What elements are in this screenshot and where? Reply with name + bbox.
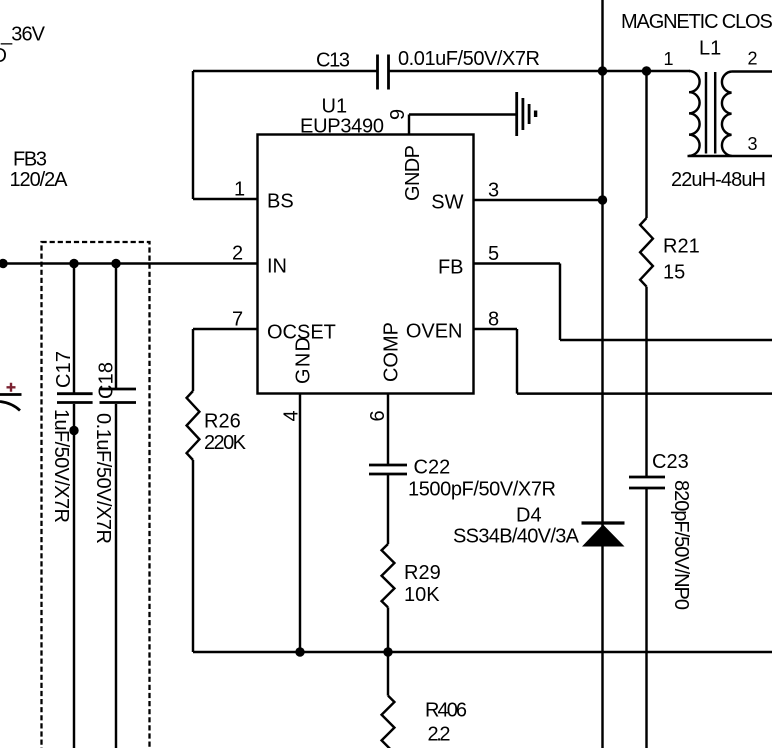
polarized capacitor (cut off at left edge) plus sign [7,383,16,392]
capacitor C13 plates [378,55,389,90]
svg-text:OVEN: OVEN [406,321,463,343]
inductor L1 right winding [722,72,732,156]
svg-text:7: 7 [232,308,243,330]
svg-text:C17: C17 [53,351,75,388]
svg-text:_36V: _36V [0,24,46,46]
polarized capacitor curved plate [0,402,20,411]
dashed box around C17 C18 [42,242,150,748]
resistor R26 [187,391,200,460]
wire L1 pin 2 [732,70,772,72]
capacitor C18 plates [100,389,137,403]
svg-text:R406: R406 [425,700,467,722]
svg-text:D: D [0,45,7,67]
wire BS loop vertical x=193 [192,71,194,199]
svg-text:3: 3 [748,134,758,154]
svg-text:L1: L1 [699,38,721,60]
wire bus to R406 [387,652,389,696]
svg-text:R29: R29 [404,562,441,584]
resistor R406 [382,696,395,748]
svg-text:D4: D4 [516,505,542,527]
wire BS horizontal to pin 1 [193,198,258,200]
svg-text:C23: C23 [652,451,689,473]
wire OCSET pin 7 [193,328,258,330]
wire ground bus y=652 [193,651,772,653]
capacitor C22 plates [369,465,407,474]
svg-text:0.1uF/50V/X7R: 0.1uF/50V/X7R [92,413,114,544]
wire top C13 left segment [193,70,377,72]
wire IN net y=263.5 [0,262,258,264]
svg-text:10K: 10K [404,584,440,606]
svg-text:1uF/50V/X7R: 1uF/50V/X7R [50,409,72,523]
wire top C13 right segment to L1 [389,70,690,72]
capacitor C17 wire lower [73,404,75,748]
wire C22 to R29 [387,475,389,544]
svg-text:R26: R26 [204,411,241,433]
svg-text:FB3: FB3 [13,149,47,171]
wire R26 column upper [192,329,194,391]
capacitor C18 wire upper [115,264,117,389]
ground symbol [517,92,536,136]
svg-text:2.2: 2.2 [428,724,451,746]
wire GND pin 4 [299,394,301,652]
junction dot R29 bus [383,647,392,656]
wire R21 to C23 [645,287,647,476]
svg-text:C13: C13 [316,50,350,72]
capacitor C17 plates [57,394,93,403]
node junction dot left edge [0,259,8,268]
svg-text:U1: U1 [322,96,348,118]
junction dot on C17 lower wire [69,426,78,435]
junction dot SW node top [598,66,607,75]
svg-text:1: 1 [664,49,674,69]
svg-text:2: 2 [748,49,758,69]
inductor L1 left winding [689,71,700,156]
svg-text:2: 2 [232,243,243,265]
junction dot pin4 on bus [295,647,304,656]
wire COMP pin 6 upper [387,394,389,464]
diode D4 cathode bar [582,521,625,524]
svg-text:FB: FB [438,257,464,279]
svg-text:SS34B/40V/3A: SS34B/40V/3A [453,526,580,548]
wire vertical SW column x=602.5 [601,0,603,748]
svg-text:IN: IN [267,256,287,278]
svg-text:0.01uF/50V/X7R: 0.01uF/50V/X7R [398,48,540,70]
svg-text:5: 5 [488,243,499,265]
svg-text:120/2A: 120/2A [10,169,69,191]
svg-text:1: 1 [234,178,245,200]
svg-text:820pF/50V/NP0: 820pF/50V/NP0 [670,480,692,610]
resistor R21 [640,218,653,287]
capacitor C18 wire lower [115,404,117,748]
svg-text:MAGNETIC CLOSE: MAGNETIC CLOSE [621,11,772,33]
polarized capacitor straight plate [0,393,22,396]
junction dot L1 node top [642,66,651,75]
svg-text:R21: R21 [663,236,700,258]
svg-text:GND: GND [293,337,315,384]
svg-text:6: 6 [367,410,389,421]
wire R26 column lower [192,460,194,652]
svg-text:BS: BS [267,191,294,213]
wire pin 9 vertical [408,115,410,136]
svg-text:C22: C22 [414,457,451,479]
op IC U1 body [258,135,474,394]
wire R29 to bus [387,607,389,652]
svg-text:8: 8 [488,308,499,330]
resistor R29 [382,544,395,607]
L1 core lines [706,72,715,154]
junction dot SW node [598,195,607,204]
node junction dot C17 top [69,259,78,268]
wire L1 bottom / pin 3 [688,155,772,157]
svg-text:SW: SW [431,192,463,214]
wire pin 9 horizontal to ground [409,113,516,115]
wire SW pin 3 [474,199,603,201]
diode D4 triangle [582,525,625,547]
svg-text:9: 9 [387,109,409,120]
svg-text:EUP3490: EUP3490 [300,116,384,138]
svg-text:GNDP: GNDP [402,145,424,201]
svg-text:3: 3 [488,179,499,201]
wire FB pin 5 [474,264,772,341]
svg-text:1500pF/50V/X7R: 1500pF/50V/X7R [408,479,556,501]
svg-text:22uH-48uH: 22uH-48uH [671,169,766,191]
svg-text:15: 15 [663,262,685,284]
wire C23 to bottom [645,489,647,748]
wire vertical R21/C23 column upper x=646.5 [645,71,647,218]
svg-text:220K: 220K [204,432,247,454]
svg-text:C18: C18 [96,362,118,399]
wire OVEN pin 8 [474,329,772,394]
capacitor C17 wire upper [73,264,75,394]
node junction dot C18 top [111,259,120,268]
svg-text:COMP: COMP [381,322,403,382]
capacitor C23 plates [629,477,665,488]
